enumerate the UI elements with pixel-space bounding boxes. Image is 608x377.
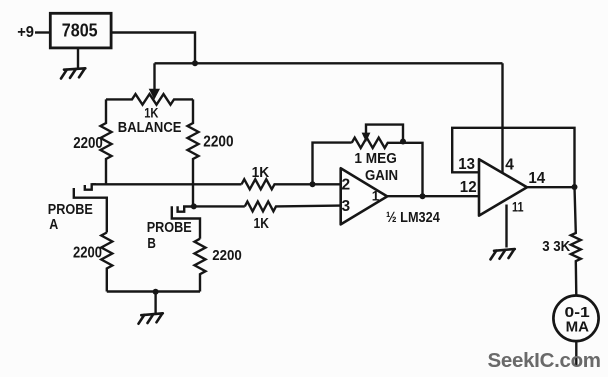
svg-text:3 3K: 3 3K xyxy=(542,238,570,255)
svg-text:2200: 2200 xyxy=(73,135,103,152)
svg-text:7805: 7805 xyxy=(62,20,98,41)
svg-text:3: 3 xyxy=(342,198,351,215)
node +9 supply input xyxy=(17,24,50,41)
junction dot U2 output xyxy=(572,184,578,190)
junction dot U1 output xyxy=(420,193,426,199)
wire 7805 output to rail corner xyxy=(111,33,195,64)
resistor R7 1K to pin 3 xyxy=(245,202,341,232)
wire U2 feedback box pin13 xyxy=(452,128,574,187)
svg-text:+9: +9 xyxy=(17,24,34,41)
svg-text:SeekIC.com: SeekIC.com xyxy=(488,349,601,372)
probe A jack hook xyxy=(85,184,96,189)
resistor R6 1K to pin 2 xyxy=(242,164,341,190)
potentiometer R5 1K BALANCE body xyxy=(106,94,193,105)
svg-text:2200: 2200 xyxy=(203,134,233,151)
resistor R4 2200 lower right xyxy=(195,239,242,292)
wire top supply rail xyxy=(155,62,503,64)
junction dot bottom rail xyxy=(153,289,159,295)
svg-text:½ LM324: ½ LM324 xyxy=(386,210,440,226)
probe B jack hook xyxy=(178,206,194,211)
svg-text:B: B xyxy=(147,236,156,252)
op-amp U1 half LM324 xyxy=(341,168,388,224)
resistor R1 2200 left bridge leg xyxy=(73,99,111,184)
svg-text:11: 11 xyxy=(512,198,524,214)
svg-text:PROBE: PROBE xyxy=(48,201,93,218)
balance pot wiper arrow xyxy=(149,89,160,100)
potentiometer R8 1 MEG gain body xyxy=(352,138,423,197)
svg-text:2200: 2200 xyxy=(73,245,102,262)
wire feedback left branch up from pin2 line xyxy=(313,143,352,185)
wire probe A node line xyxy=(92,183,242,185)
svg-text:2: 2 xyxy=(342,177,351,194)
op-amp U2 half LM324 xyxy=(479,159,527,215)
wire rail down to balance wiper xyxy=(153,63,155,90)
junction dot at rail xyxy=(192,60,198,66)
gain pot wiper arrow and strap xyxy=(362,125,403,142)
svg-text:BALANCE: BALANCE xyxy=(118,119,182,136)
svg-text:2200: 2200 xyxy=(212,247,242,264)
wire bottom bridge rail xyxy=(107,290,200,292)
ground G2 bridge common xyxy=(139,313,163,323)
svg-text:1K: 1K xyxy=(254,215,270,232)
svg-text:4: 4 xyxy=(505,156,514,173)
svg-text:0-1: 0-1 xyxy=(565,305,590,321)
regulator U3 7805 xyxy=(50,13,111,48)
probe B lead to lower resistor xyxy=(172,206,200,238)
svg-text:A: A xyxy=(49,217,58,233)
wire pin 11 down xyxy=(505,205,507,248)
svg-text:PROBE: PROBE xyxy=(147,219,192,236)
wire U2 output xyxy=(527,186,575,188)
wire down to ground G2 xyxy=(154,292,156,314)
svg-text:1K: 1K xyxy=(252,164,270,181)
resistor R9 3.3K xyxy=(542,187,581,296)
ground G1 under 7805 xyxy=(61,68,85,78)
meter M1 0-1 MA xyxy=(553,296,598,342)
svg-text:1 MEG: 1 MEG xyxy=(354,151,396,167)
wire rail down to pin 4 xyxy=(501,63,503,173)
svg-text:1: 1 xyxy=(372,189,380,204)
wire meter to bottom xyxy=(575,341,577,366)
svg-text:13: 13 xyxy=(458,156,475,173)
svg-text:GAIN: GAIN xyxy=(365,168,398,184)
junction dot feedback tap on pin2 line xyxy=(310,181,316,187)
label PROBE B xyxy=(147,219,192,252)
svg-text:12: 12 xyxy=(460,179,477,196)
junction dot wiper strap xyxy=(400,139,406,145)
probe A lead to lower resistor xyxy=(74,188,107,233)
junction dot probe B node xyxy=(191,203,197,209)
label PROBE A xyxy=(48,201,93,233)
wire probe B line to resistor R7 xyxy=(194,205,245,207)
svg-text:14: 14 xyxy=(528,170,545,187)
wire U1 output to U2 pin 12 xyxy=(387,195,479,197)
svg-text:MA: MA xyxy=(566,319,590,335)
ground G3 under pin 11 xyxy=(491,249,515,259)
resistor R3 2200 lower left xyxy=(73,233,112,292)
wire 7805 to ground xyxy=(77,48,79,68)
resistor R2 2200 right bridge leg xyxy=(188,99,234,206)
